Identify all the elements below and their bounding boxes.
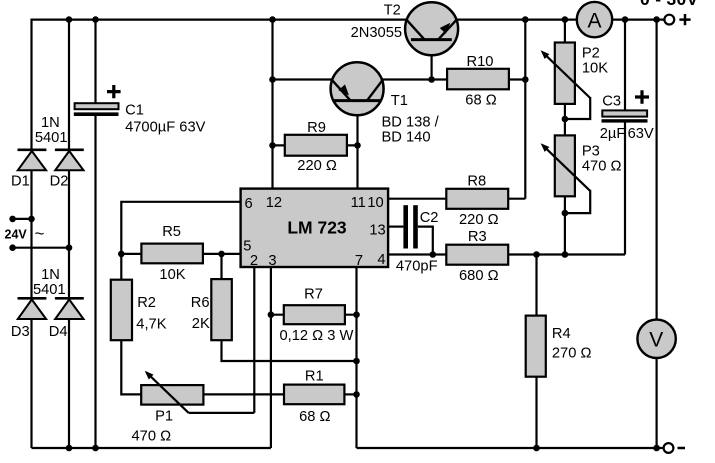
- label 24V input: [5, 224, 45, 243]
- wire T2 base vertical: [431, 40, 433, 80]
- svg-text:C1: C1: [125, 103, 144, 119]
- svg-text:R9: R9: [307, 120, 326, 136]
- junction dot 12: [354, 142, 361, 149]
- svg-text:68 Ω: 68 Ω: [299, 409, 330, 425]
- svg-text:~: ~: [35, 224, 45, 243]
- label C2 value: [396, 210, 439, 275]
- svg-text:470pF: 470pF: [396, 259, 438, 275]
- junction dot 28: [9, 216, 16, 223]
- resistor R1: [284, 385, 344, 405]
- ammeter A: [577, 2, 612, 37]
- svg-text:6: 6: [245, 196, 253, 212]
- svg-text:10: 10: [367, 195, 383, 211]
- svg-text:0,12 Ω 3 W: 0,12 Ω 3 W: [280, 328, 354, 344]
- junction dot 21: [353, 311, 360, 318]
- wire x525 vertical: [524, 20, 526, 199]
- wire C3 vertical bottom: [624, 121, 626, 255]
- capacitor C3: [602, 90, 650, 122]
- junction dot 3: [269, 16, 276, 23]
- label R3 680Ω: [459, 229, 499, 284]
- svg-text:C3: C3: [602, 93, 621, 109]
- junction dot 25: [92, 445, 99, 452]
- resistor R10: [447, 69, 509, 90]
- junction dot 18: [562, 116, 569, 123]
- wire C1 vertical top: [94, 20, 96, 104]
- label R10 68Ω: [465, 54, 496, 109]
- capacitor C2: [403, 205, 417, 248]
- junction dot 11: [269, 142, 276, 149]
- label P3 470Ω: [582, 143, 622, 174]
- svg-text:10K: 10K: [582, 60, 608, 76]
- junction dot 20: [268, 311, 275, 318]
- transistor T2 2N3055 NPN: [405, 2, 458, 55]
- wire pin7 vertical: [355, 267, 357, 448]
- svg-text:7: 7: [355, 253, 363, 269]
- wire R10 right stub: [509, 78, 525, 80]
- junction dot 13: [118, 251, 125, 258]
- label R5 10K: [159, 224, 185, 283]
- wire pin2 vertical: [253, 267, 255, 413]
- label P2 10K: [582, 45, 608, 76]
- junction dot 29: [28, 216, 35, 223]
- potentiometer P3: [541, 135, 591, 213]
- wire P1 to R1: [203, 393, 284, 395]
- resistor R6: [211, 279, 232, 340]
- wire P2-P3 link: [564, 104, 566, 135]
- svg-text:0 - 30V: 0 - 30V: [640, 0, 699, 9]
- wire pin4 row to C3: [388, 253, 625, 255]
- junction dot 24: [66, 445, 73, 452]
- svg-text:D3: D3: [11, 324, 30, 340]
- junction dot 14: [218, 251, 225, 258]
- wire pin13 stub: [388, 226, 403, 228]
- resistor R2: [111, 280, 132, 341]
- svg-text:LM 723: LM 723: [287, 217, 347, 237]
- svg-text:2K: 2K: [192, 316, 210, 332]
- svg-text:68 Ω: 68 Ω: [465, 93, 496, 109]
- svg-text:3: 3: [268, 253, 276, 269]
- svg-text:10K: 10K: [159, 267, 185, 283]
- junction dot 10: [522, 76, 529, 83]
- junction dot 6: [622, 16, 629, 23]
- wire R5 row pin5: [121, 253, 240, 255]
- wire left vertical rail: [30, 19, 32, 449]
- wire R4 vertical: [535, 255, 537, 449]
- label R8 220Ω: [459, 173, 499, 228]
- wire T1 base / pin11 vertical: [356, 101, 358, 189]
- wire bottom-left rail: [32, 447, 271, 449]
- wire 24V lower tap: [13, 247, 69, 249]
- junction dot 1: [66, 16, 73, 23]
- junction dot 16: [533, 251, 540, 258]
- wire R6 top: [220, 254, 222, 279]
- wire P3 bottom: [564, 196, 566, 254]
- label C3 value: [600, 93, 654, 142]
- wire V meter vertical: [655, 20, 657, 448]
- diode D4: [55, 298, 84, 319]
- junction dot 17: [562, 251, 569, 258]
- wire R2 top: [120, 254, 122, 280]
- terminal - output: [664, 443, 685, 453]
- junction dot 26: [533, 445, 540, 452]
- svg-text:1N: 1N: [41, 115, 60, 131]
- resistor R4: [526, 316, 546, 377]
- svg-text:220 Ω: 220 Ω: [459, 212, 499, 228]
- svg-text:R2: R2: [137, 295, 156, 311]
- capacitor C1: [74, 85, 121, 116]
- junction dot 2: [92, 16, 99, 23]
- wire R6 bottom to pin7 net: [222, 340, 357, 361]
- wire pin12 vertical: [271, 20, 273, 189]
- svg-text:D2: D2: [50, 174, 69, 190]
- potentiometer P2: [541, 43, 591, 120]
- svg-text:D1: D1: [11, 174, 30, 190]
- svg-text:R6: R6: [191, 295, 210, 311]
- label R2 4,7K: [136, 295, 166, 333]
- wire D2-D4 vertical: [68, 20, 70, 448]
- svg-text:470 Ω: 470 Ω: [582, 159, 622, 175]
- op-amp regulator U1 LM723: [241, 189, 389, 267]
- wire 24V upper tap: [13, 218, 32, 220]
- junction dot 5: [562, 16, 569, 23]
- svg-text:V: V: [649, 329, 663, 352]
- svg-text:R10: R10: [467, 54, 494, 70]
- resistor R9: [285, 135, 347, 156]
- svg-text:2N3055: 2N3055: [351, 25, 402, 41]
- label R6 2K: [191, 295, 210, 332]
- svg-text:270 Ω: 270 Ω: [552, 346, 592, 362]
- wire R7 row: [271, 314, 357, 316]
- junction dot 31: [66, 244, 73, 251]
- wire pin10 to R8: [388, 198, 446, 200]
- junction dot 7: [653, 16, 660, 23]
- wire R2 bottom to P1: [121, 340, 141, 394]
- resistor R3: [446, 245, 508, 265]
- svg-text:BD 138 /: BD 138 /: [382, 115, 440, 131]
- junction dot 9: [428, 76, 435, 83]
- svg-text:13: 13: [369, 222, 385, 238]
- wire C3 vertical top: [624, 20, 626, 111]
- svg-text:T1: T1: [391, 93, 408, 109]
- svg-text:4: 4: [377, 252, 385, 268]
- svg-text:12: 12: [266, 195, 282, 211]
- resistor R8: [446, 189, 508, 209]
- svg-text:11: 11: [351, 195, 366, 211]
- label R4 270Ω: [552, 326, 592, 362]
- junction dot 8: [269, 76, 276, 83]
- wire R8 right stub: [508, 198, 525, 200]
- label C1 value: [125, 103, 206, 136]
- wire R9 row: [273, 144, 358, 146]
- junction dot 22: [353, 358, 360, 365]
- svg-text:R8: R8: [467, 173, 486, 189]
- diode D3: [18, 298, 47, 319]
- junction dot 30: [9, 244, 16, 251]
- junction dot 19: [562, 210, 569, 217]
- wire P1 wiper horizontal: [189, 412, 255, 414]
- wire pin3 vertical: [270, 267, 272, 448]
- wire C2 right elbow: [418, 227, 433, 255]
- svg-text:470 Ω: 470 Ω: [132, 428, 172, 444]
- svg-text:4,7K: 4,7K: [136, 317, 166, 333]
- terminal + output: [664, 14, 690, 25]
- label T2 2N3055: [351, 3, 402, 41]
- label P1 470Ω: [132, 409, 174, 445]
- label 1N 5401 upper: [35, 115, 68, 146]
- svg-text:A: A: [587, 9, 601, 32]
- label R1 68Ω: [299, 369, 330, 425]
- voltmeter V: [637, 320, 675, 358]
- svg-text:5401: 5401: [35, 130, 68, 146]
- svg-text:T2: T2: [384, 3, 401, 19]
- svg-text:220 Ω: 220 Ω: [297, 158, 337, 174]
- svg-text:5401: 5401: [33, 282, 66, 298]
- wire bottom-right rail: [357, 447, 664, 449]
- label R7 0,12Ω 3W: [280, 287, 354, 344]
- junction dot 4: [522, 16, 529, 23]
- svg-text:2µF: 2µF: [600, 126, 626, 142]
- svg-text:24V: 24V: [5, 228, 28, 242]
- junction dot 27: [653, 445, 660, 452]
- svg-text:R5: R5: [162, 224, 181, 240]
- label T1 BD138/BD140: [382, 93, 440, 145]
- svg-text:R7: R7: [304, 287, 323, 303]
- svg-text:4700µF 63V: 4700µF 63V: [125, 119, 206, 135]
- svg-text:P2: P2: [582, 45, 600, 61]
- transistor T1 BD138/BD140 PNP: [331, 62, 384, 115]
- svg-text:BD 140: BD 140: [382, 130, 431, 146]
- diode D2: [55, 150, 84, 171]
- resistor R7: [284, 305, 345, 324]
- svg-text:R3: R3: [468, 229, 487, 245]
- svg-text:P3: P3: [582, 143, 600, 159]
- svg-text:R4: R4: [552, 326, 571, 342]
- wire pin6 loop: [121, 202, 240, 254]
- svg-text:C2: C2: [420, 210, 439, 226]
- svg-text:R1: R1: [305, 369, 324, 385]
- svg-text:63V: 63V: [628, 126, 654, 142]
- svg-text:2: 2: [250, 253, 258, 269]
- wire P2 top stub: [564, 20, 566, 43]
- junction dot 15: [430, 251, 437, 258]
- svg-text:P1: P1: [155, 409, 173, 425]
- diode D1: [18, 150, 47, 171]
- wire top rail: [32, 19, 664, 21]
- junction dot 23: [353, 391, 360, 398]
- svg-text:1N: 1N: [41, 267, 60, 283]
- potentiometer P1: [141, 371, 203, 413]
- svg-text:D4: D4: [49, 324, 68, 340]
- label R9 220Ω: [297, 120, 337, 174]
- resistor R5: [141, 244, 203, 264]
- wire C1 vertical bottom: [94, 116, 96, 449]
- wire T1 row: [273, 78, 448, 80]
- svg-text:680 Ω: 680 Ω: [459, 268, 499, 284]
- wire R1 right stub: [344, 393, 356, 395]
- label 1N 5401 lower: [33, 267, 66, 298]
